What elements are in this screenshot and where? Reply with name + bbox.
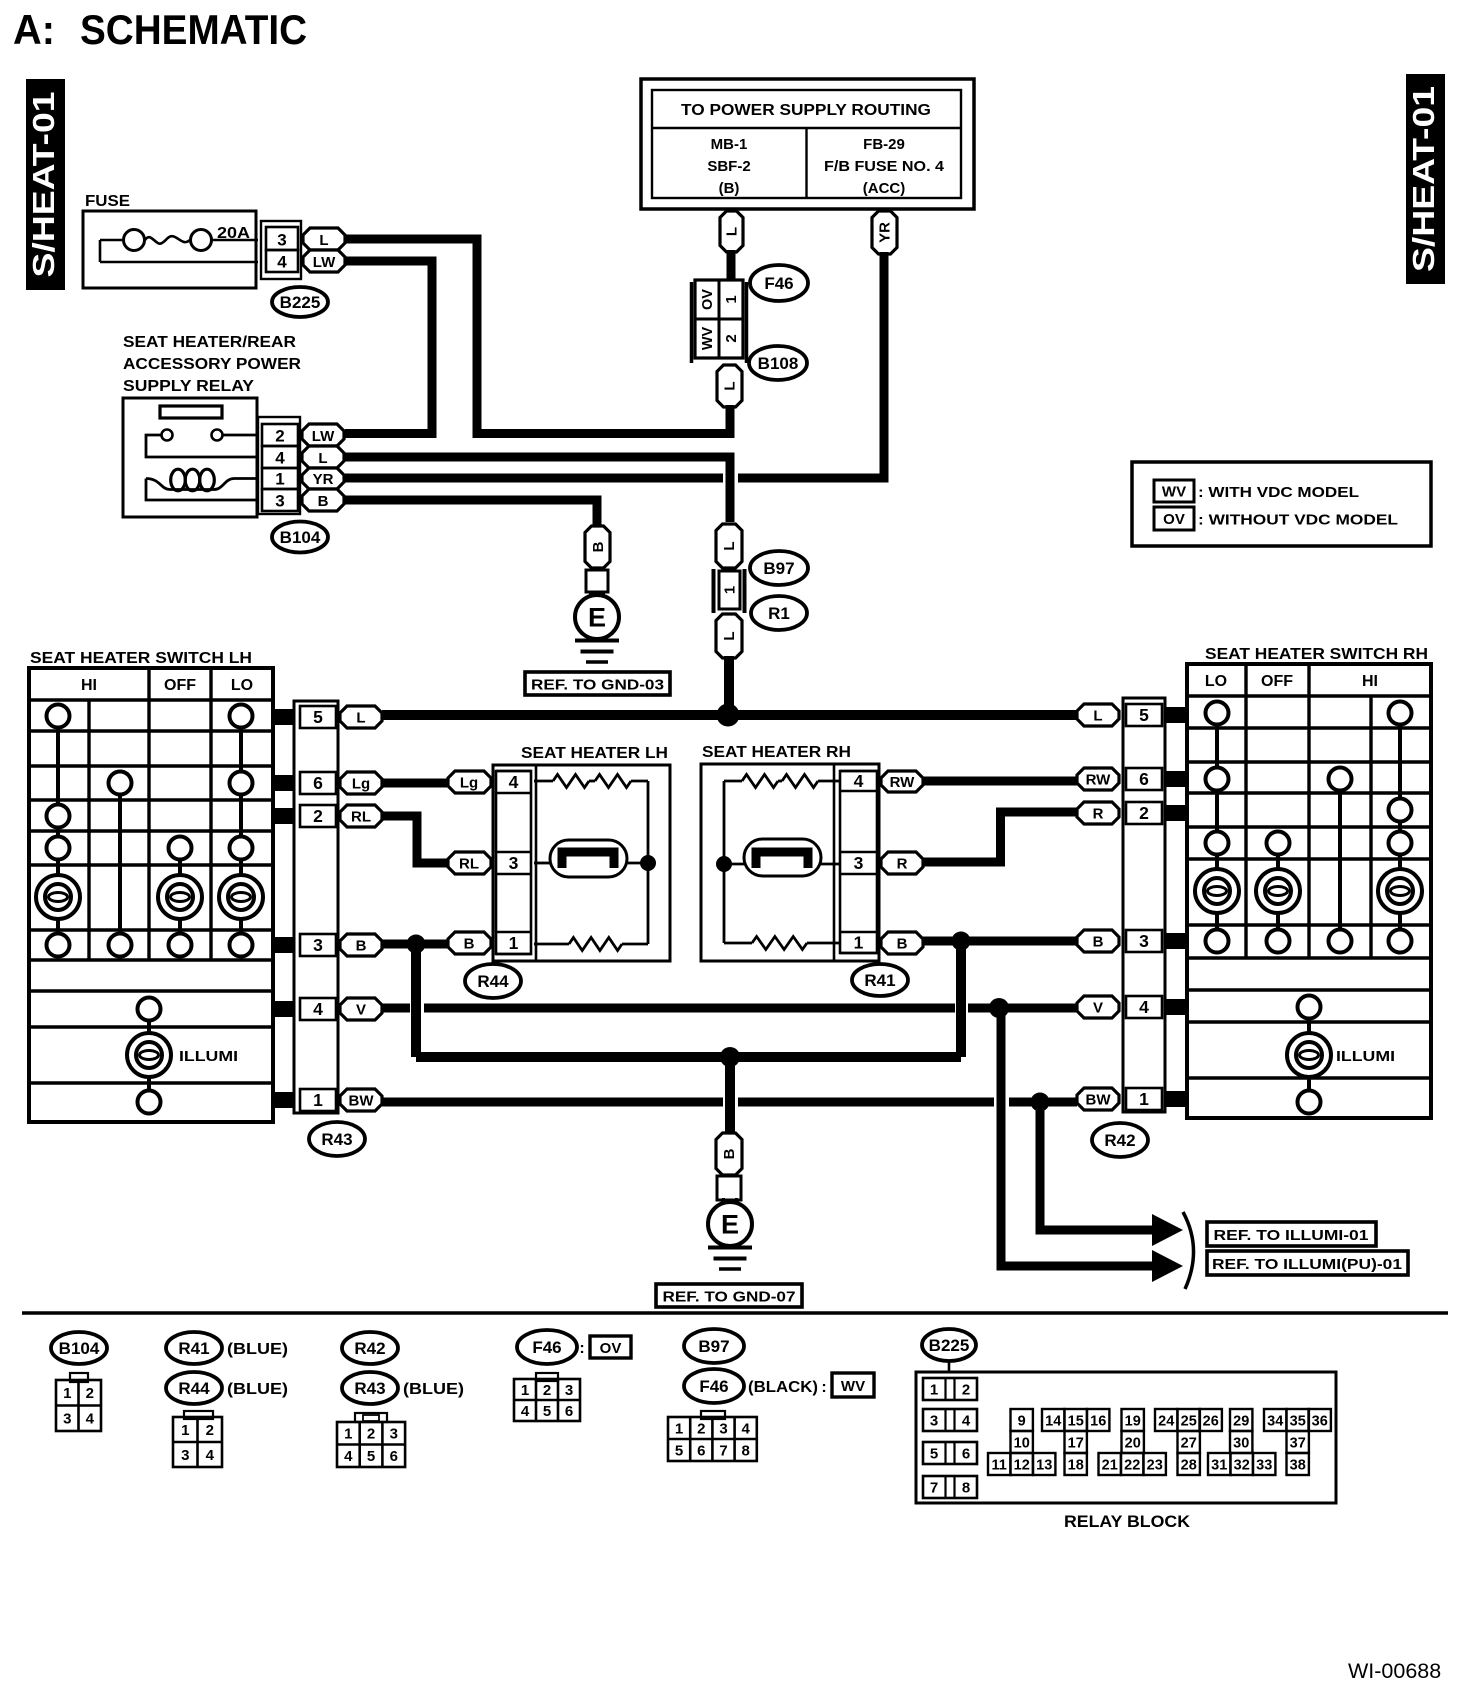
svg-text:21: 21: [1102, 1457, 1118, 1473]
seat heater RH box: [701, 764, 879, 961]
svg-text:R44: R44: [178, 1379, 210, 1398]
relay block cavity 21: [1099, 1453, 1121, 1475]
svg-text:35: 35: [1290, 1413, 1306, 1429]
switch RH contact column 4: [1378, 702, 1422, 953]
arc bracket: [1183, 1212, 1194, 1289]
separator line: [22, 1311, 1448, 1315]
svg-text:20A: 20A: [217, 225, 250, 242]
svg-text:5: 5: [930, 1446, 938, 1463]
junction L bus: [717, 704, 740, 727]
connector R44 pin 3: [496, 852, 531, 874]
svg-text:5: 5: [543, 1403, 551, 1420]
relay block cavity 31: [1208, 1453, 1230, 1475]
svg-text:WV: WV: [841, 1378, 865, 1395]
svg-text:4: 4: [313, 999, 323, 1019]
svg-text:1: 1: [675, 1420, 683, 1437]
relay label: [123, 334, 301, 395]
svg-text:1: 1: [723, 295, 740, 303]
svg-text:R42: R42: [354, 1339, 385, 1358]
switch RH terminal tabs: [1164, 707, 1189, 1107]
svg-text:REF. TO ILLUMI(PU)-01: REF. TO ILLUMI(PU)-01: [1212, 1256, 1402, 1273]
svg-text:13: 13: [1036, 1457, 1052, 1473]
svg-text:B104: B104: [280, 528, 321, 547]
connector R42 pin 5: [1126, 704, 1162, 726]
connector name R41: [852, 964, 908, 996]
svg-text:S/HEAT-01: S/HEAT-01: [1406, 86, 1441, 272]
wire color label B (to GND-03): [585, 526, 610, 568]
relay block box: [916, 1372, 1336, 1503]
wire V to illumination: [1001, 1008, 1155, 1266]
connector B104 pin 4: [262, 446, 298, 468]
svg-text:3: 3: [313, 935, 323, 955]
connector R43 pin 2: [300, 805, 336, 827]
svg-text:1: 1: [854, 933, 864, 953]
relay block cavity 5/6: [923, 1442, 977, 1464]
svg-text:V: V: [356, 1001, 366, 1018]
svg-text:8: 8: [742, 1442, 750, 1459]
title A: SCHEMATIC: [13, 6, 307, 53]
svg-text:HI: HI: [1362, 673, 1378, 690]
svg-text:3: 3: [1139, 931, 1149, 951]
svg-text:1: 1: [344, 1426, 352, 1443]
svg-text:1: 1: [930, 1382, 938, 1399]
svg-text:17: 17: [1068, 1435, 1084, 1451]
connector R43 pin layout: [337, 1413, 405, 1467]
relay block cavity 37: [1287, 1431, 1309, 1453]
svg-text:R41: R41: [178, 1339, 209, 1358]
wire color label B (to GND-07): [716, 1133, 742, 1175]
ground E GND-07: [708, 1198, 752, 1269]
heater LH element resistor top: [534, 775, 648, 788]
relay block cavity 32: [1231, 1453, 1253, 1475]
svg-text:1: 1: [275, 470, 284, 489]
relay block cavity 23: [1144, 1453, 1166, 1475]
ground E GND-03: [575, 591, 619, 662]
legend OV: [1154, 507, 1398, 530]
svg-text:4: 4: [962, 1413, 971, 1430]
svg-text:4: 4: [344, 1448, 353, 1465]
connector B104 pin 2: [262, 424, 298, 446]
connector R43 pin 1: [300, 1089, 336, 1111]
svg-text:4: 4: [1139, 997, 1149, 1017]
connector F46/B108 block: [692, 280, 747, 363]
wire color label BW (R42): [1077, 1088, 1119, 1110]
connector name B104: [272, 522, 328, 553]
svg-text:36: 36: [1312, 1413, 1328, 1429]
wire color label L (R42): [1077, 704, 1119, 726]
svg-text:RW: RW: [1086, 771, 1112, 788]
wire B LH drop: [411, 944, 421, 1057]
svg-text:5: 5: [367, 1448, 375, 1465]
svg-text:19: 19: [1125, 1413, 1141, 1429]
svg-text:L: L: [721, 541, 738, 550]
svg-text:WV: WV: [700, 326, 716, 350]
power supply routing box: [641, 79, 974, 209]
svg-text:(B): (B): [719, 180, 740, 197]
svg-text:7: 7: [719, 1442, 727, 1459]
svg-text:RELAY BLOCK: RELAY BLOCK: [1064, 1512, 1191, 1531]
ground terminal box GND-03: [586, 570, 608, 592]
wire color label L (R43): [340, 706, 382, 728]
svg-text:1: 1: [181, 1422, 189, 1439]
connector name B108: [749, 346, 807, 380]
connector R44 pin layout: [173, 1411, 222, 1467]
wire L : B225 pin3 to B108: [345, 239, 730, 434]
relay block cavity 19: [1122, 1409, 1144, 1431]
svg-text:R43: R43: [354, 1379, 385, 1398]
svg-text:SEAT HEATER SWITCH LH: SEAT HEATER SWITCH LH: [30, 650, 252, 667]
svg-text:E: E: [588, 603, 606, 633]
connector B104 pin layout: [56, 1373, 101, 1431]
svg-text:9: 9: [1018, 1413, 1026, 1429]
wire color label L (B97 lower): [716, 614, 742, 658]
svg-text:4: 4: [521, 1403, 530, 1420]
svg-text:REF. TO GND-07: REF. TO GND-07: [663, 1289, 796, 1306]
wire color label B (R41): [881, 932, 923, 954]
svg-text:1: 1: [521, 1382, 529, 1399]
wire color label V (R42): [1077, 996, 1119, 1018]
switch LH header HI OFF LO: [81, 677, 253, 694]
relay block cavity 1/2: [923, 1378, 977, 1400]
svg-text:(BLACK): (BLACK): [748, 1379, 818, 1396]
wire color label B (R44): [448, 932, 491, 954]
switch LH contact column 4: [219, 705, 263, 957]
connector name R44: [465, 964, 521, 998]
svg-text:OV: OV: [700, 289, 716, 310]
svg-text:(BLUE): (BLUE): [403, 1381, 464, 1398]
svg-text:YR: YR: [313, 471, 334, 488]
wire color label RW (R41): [881, 771, 923, 792]
svg-text:1: 1: [509, 933, 519, 953]
connector B225 shell: [261, 221, 301, 279]
relay contact circles: [162, 430, 223, 441]
svg-text:3: 3: [854, 853, 864, 873]
junction heater RH: [716, 856, 732, 872]
connector B104 pin 3: [262, 489, 298, 511]
svg-text:29: 29: [1233, 1413, 1249, 1429]
svg-text:FUSE: FUSE: [85, 193, 130, 210]
wire B bus: [416, 1052, 961, 1062]
svg-text:B: B: [590, 541, 607, 552]
svg-text:6: 6: [390, 1448, 398, 1465]
heater RH element resistor bottom: [724, 937, 840, 950]
svg-text:2: 2: [962, 1382, 970, 1399]
svg-text:B97: B97: [763, 559, 794, 578]
relay block cavity 30: [1230, 1431, 1252, 1453]
wire RW: [923, 777, 1077, 786]
svg-text:6: 6: [962, 1446, 970, 1463]
ref box REF. TO ILLUMI(PU)-01: [1207, 1251, 1408, 1275]
connector name B225: [272, 287, 328, 317]
relay block cavity 16: [1087, 1409, 1109, 1431]
relay contact bar: [160, 406, 222, 418]
connector R44 pin 1: [496, 932, 531, 954]
wire color label Lg (R44): [448, 771, 491, 793]
svg-text:6: 6: [1139, 769, 1149, 789]
relay block cavity 13: [1033, 1453, 1055, 1475]
page tab S/HEAT-01 left: [26, 79, 65, 290]
junction B bus: [720, 1047, 740, 1067]
connector R41 pin 4: [840, 771, 877, 791]
connector name R42: [1092, 1123, 1148, 1157]
wire B RH drop: [956, 941, 966, 1057]
svg-text:4: 4: [86, 1411, 95, 1428]
connector R1 pin 1 box: [714, 569, 745, 613]
svg-text:4: 4: [509, 772, 519, 792]
svg-text:3: 3: [275, 492, 284, 511]
connector R44 pin 4: [496, 771, 531, 793]
switch LH contact column 1: [36, 705, 80, 957]
relay block cavity 12: [1011, 1453, 1033, 1475]
svg-text:2: 2: [723, 334, 740, 342]
svg-text:F/B FUSE NO. 4: F/B FUSE NO. 4: [824, 158, 945, 175]
wire color label B (R43): [340, 934, 382, 956]
relay block cavity 26: [1200, 1409, 1222, 1431]
svg-text:L: L: [319, 232, 328, 249]
wire L : relay pin4 to connector R1: [345, 457, 730, 522]
svg-text:LO: LO: [1205, 673, 1227, 690]
connector B104 pin 1: [262, 468, 298, 489]
svg-text:LW: LW: [312, 428, 335, 445]
wire color label YR (power box output): [872, 211, 897, 254]
svg-text:MB-1: MB-1: [711, 136, 748, 153]
svg-text:B: B: [897, 935, 908, 952]
seat heater LH box: [493, 765, 670, 961]
svg-text:L: L: [724, 227, 741, 236]
svg-text:24: 24: [1158, 1413, 1174, 1429]
svg-text:15: 15: [1068, 1413, 1084, 1429]
svg-text:OV: OV: [600, 1340, 622, 1357]
connector name F46 (legend): [517, 1330, 577, 1364]
connector B225 pin 3: [266, 227, 298, 250]
wire color label Lg (R43): [340, 772, 382, 794]
relay block cavity 7/8: [923, 1476, 977, 1498]
svg-text:3: 3: [277, 231, 286, 250]
svg-text:R41: R41: [864, 971, 895, 990]
ref box REF. TO ILLUMI-01: [1207, 1222, 1376, 1246]
svg-text:L: L: [356, 709, 365, 726]
svg-text:ACCESSORY POWER: ACCESSORY POWER: [123, 356, 301, 373]
ref box REF. TO GND-07: [656, 1284, 802, 1307]
svg-text:7: 7: [930, 1480, 938, 1497]
svg-text:3: 3: [719, 1420, 727, 1437]
switch RH table grid: [1187, 664, 1431, 1118]
fuse box: [83, 211, 256, 288]
junction B LH: [407, 935, 426, 954]
svg-text:32: 32: [1234, 1457, 1250, 1473]
wire Lg: [382, 779, 448, 788]
switch LH contact column 2: [109, 772, 132, 957]
connector R42 pin 4: [1126, 996, 1162, 1018]
wire L power box to F46: [727, 250, 736, 281]
junction BW bus: [1031, 1093, 1050, 1112]
connector name R44 (legend): [166, 1372, 222, 1404]
svg-text:BW: BW: [349, 1092, 375, 1109]
label F46 OV: [579, 1336, 631, 1358]
svg-text:4: 4: [275, 449, 285, 468]
svg-text:OFF: OFF: [164, 677, 196, 694]
svg-text:10: 10: [1014, 1435, 1030, 1451]
svg-text:1: 1: [722, 586, 739, 594]
svg-text:1: 1: [63, 1385, 71, 1402]
wire B : relay pin3 to ground: [345, 500, 597, 526]
wire L main bus: [382, 710, 1077, 720]
heater RH thermostat: [724, 839, 840, 876]
connector R44 strip: [496, 771, 531, 954]
svg-text:4: 4: [742, 1420, 751, 1437]
svg-text:Lg: Lg: [460, 774, 478, 791]
svg-text:34: 34: [1267, 1413, 1283, 1429]
svg-text:3: 3: [930, 1413, 938, 1430]
heater LH element resistor bottom: [534, 938, 648, 951]
svg-text:3: 3: [390, 1426, 398, 1443]
svg-text:B: B: [464, 935, 475, 952]
svg-text:A:: A:: [13, 6, 55, 53]
wire color label L (B225 pin3): [303, 228, 345, 250]
svg-text:ILLUMI: ILLUMI: [179, 1048, 238, 1065]
connector R43 pin 4: [300, 998, 336, 1020]
svg-text:3: 3: [181, 1447, 189, 1464]
connector name R1: [751, 596, 807, 630]
svg-text::: :: [579, 1340, 584, 1357]
svg-text:2: 2: [697, 1420, 705, 1437]
connector R42 pin 1: [1126, 1088, 1162, 1110]
relay block cavity 10: [1011, 1431, 1033, 1453]
svg-text:YR: YR: [877, 222, 894, 243]
wire BW to illumination: [1040, 1102, 1155, 1230]
svg-text:: WITHOUT VDC MODEL: : WITHOUT VDC MODEL: [1198, 512, 1398, 529]
ground terminal box GND-07: [717, 1176, 741, 1200]
connector R43 pin 5: [300, 706, 336, 728]
svg-text:V: V: [1093, 999, 1103, 1016]
connector name B97: [750, 551, 808, 585]
svg-text:: WITH VDC MODEL: : WITH VDC MODEL: [1198, 484, 1359, 501]
connector name B104 (legend): [51, 1332, 107, 1364]
svg-text:REF. TO GND-03: REF. TO GND-03: [531, 677, 664, 694]
relay block cavity 36: [1309, 1409, 1331, 1431]
wire LW : B225 pin4 to relay pin2: [345, 261, 432, 434]
svg-text:S/HEAT-01: S/HEAT-01: [26, 92, 61, 278]
relay block cavity 9: [1011, 1409, 1033, 1431]
switch LH illumination lamp ILLUMI: [127, 998, 238, 1114]
svg-text:WI-00688: WI-00688: [1348, 1659, 1441, 1683]
svg-text:30: 30: [1233, 1435, 1249, 1451]
svg-text:B: B: [318, 493, 329, 510]
connector name B97 (legend): [684, 1329, 744, 1363]
connector R41 pin 1: [840, 932, 877, 953]
power source FB-29 F/B FUSE NO.4 (ACC): [824, 136, 945, 197]
svg-text:E: E: [721, 1210, 739, 1240]
heater LH right vertical wire: [647, 781, 650, 944]
B225 tick: [948, 1361, 951, 1373]
relay block cavity 25: [1178, 1409, 1200, 1431]
svg-text:SUPPLY RELAY: SUPPLY RELAY: [123, 378, 255, 395]
wire color label L (B108): [717, 365, 742, 407]
wire color label L (relay pin4): [302, 446, 344, 468]
svg-text:L: L: [721, 631, 738, 640]
switch RH header LO OFF HI: [1205, 673, 1378, 690]
svg-text:4: 4: [277, 253, 287, 272]
wire B bus to GND-07: [725, 1057, 735, 1133]
relay coil: [171, 469, 215, 491]
wire color label B (R42): [1077, 930, 1119, 952]
svg-text:F46: F46: [764, 274, 793, 293]
wire color label RL (R43): [340, 805, 382, 827]
connector R43 strip: [294, 701, 338, 1113]
svg-text:31: 31: [1211, 1457, 1227, 1473]
svg-text:(ACC): (ACC): [863, 180, 906, 197]
connector F46 pin layout: [514, 1373, 580, 1421]
legend WV: [1154, 480, 1359, 502]
connector R42 pin 6: [1126, 768, 1162, 790]
svg-text:(BLUE): (BLUE): [227, 1381, 288, 1398]
arrow to ILLUMI(PU)-01: [1152, 1250, 1183, 1282]
junction V bus: [989, 998, 1009, 1018]
junction heater LH: [640, 855, 656, 871]
relay block cavity 35: [1287, 1409, 1309, 1431]
wire color label L (B97 upper): [716, 524, 742, 568]
svg-text:B: B: [1093, 933, 1104, 950]
relay block cavity 18: [1065, 1453, 1087, 1475]
wire color label R (R42): [1077, 802, 1119, 824]
wire V bus: [382, 1004, 1077, 1013]
svg-text:2: 2: [367, 1426, 375, 1443]
svg-text:6: 6: [697, 1442, 705, 1459]
connector R42 pin 3: [1126, 930, 1162, 952]
switch RH illumination lamp ILLUMI: [1287, 996, 1395, 1114]
svg-text:3: 3: [63, 1411, 71, 1428]
wire color label R (R41): [881, 852, 923, 874]
svg-text:12: 12: [1014, 1457, 1030, 1473]
svg-text:20: 20: [1125, 1435, 1141, 1451]
wire color label RL (R44): [448, 852, 491, 874]
wire color label BW (R43): [340, 1089, 382, 1111]
fuse value 20A: [217, 225, 250, 242]
relay block cavity 33: [1253, 1453, 1275, 1475]
switch LH table grid: [29, 668, 273, 1122]
svg-text:2: 2: [543, 1382, 551, 1399]
svg-text:37: 37: [1290, 1435, 1306, 1451]
svg-text:2: 2: [1139, 803, 1149, 823]
svg-text:LW: LW: [313, 254, 336, 271]
svg-text:REF. TO ILLUMI-01: REF. TO ILLUMI-01: [1214, 1227, 1369, 1244]
svg-text:L: L: [318, 450, 327, 467]
svg-text:4: 4: [206, 1447, 215, 1464]
connector R43 pin 6: [300, 772, 336, 794]
svg-text:Lg: Lg: [352, 775, 370, 792]
svg-text:2: 2: [275, 427, 284, 446]
connector B225 pin 4: [266, 250, 298, 272]
connector name F46: [750, 265, 808, 301]
svg-text:SEAT HEATER LH: SEAT HEATER LH: [521, 745, 668, 762]
svg-text:2: 2: [86, 1385, 94, 1402]
svg-text:14: 14: [1045, 1413, 1061, 1429]
wire color label L (power box output): [720, 211, 743, 252]
svg-text:23: 23: [1147, 1457, 1163, 1473]
relay block cavity 15: [1065, 1409, 1087, 1431]
relay coil wires: [146, 479, 257, 490]
svg-text:(BLUE): (BLUE): [227, 1341, 288, 1358]
label F46 BLACK WV: [748, 1373, 874, 1397]
svg-text:4: 4: [854, 771, 864, 791]
svg-text:28: 28: [1181, 1457, 1197, 1473]
wire color label B (relay pin3): [302, 489, 344, 511]
svg-text::: :: [821, 1379, 826, 1396]
connector name R43 (legend): [342, 1372, 398, 1404]
relay block cavity 29: [1230, 1409, 1252, 1431]
svg-text:B225: B225: [280, 293, 321, 312]
relay block cavity 11: [988, 1453, 1010, 1475]
